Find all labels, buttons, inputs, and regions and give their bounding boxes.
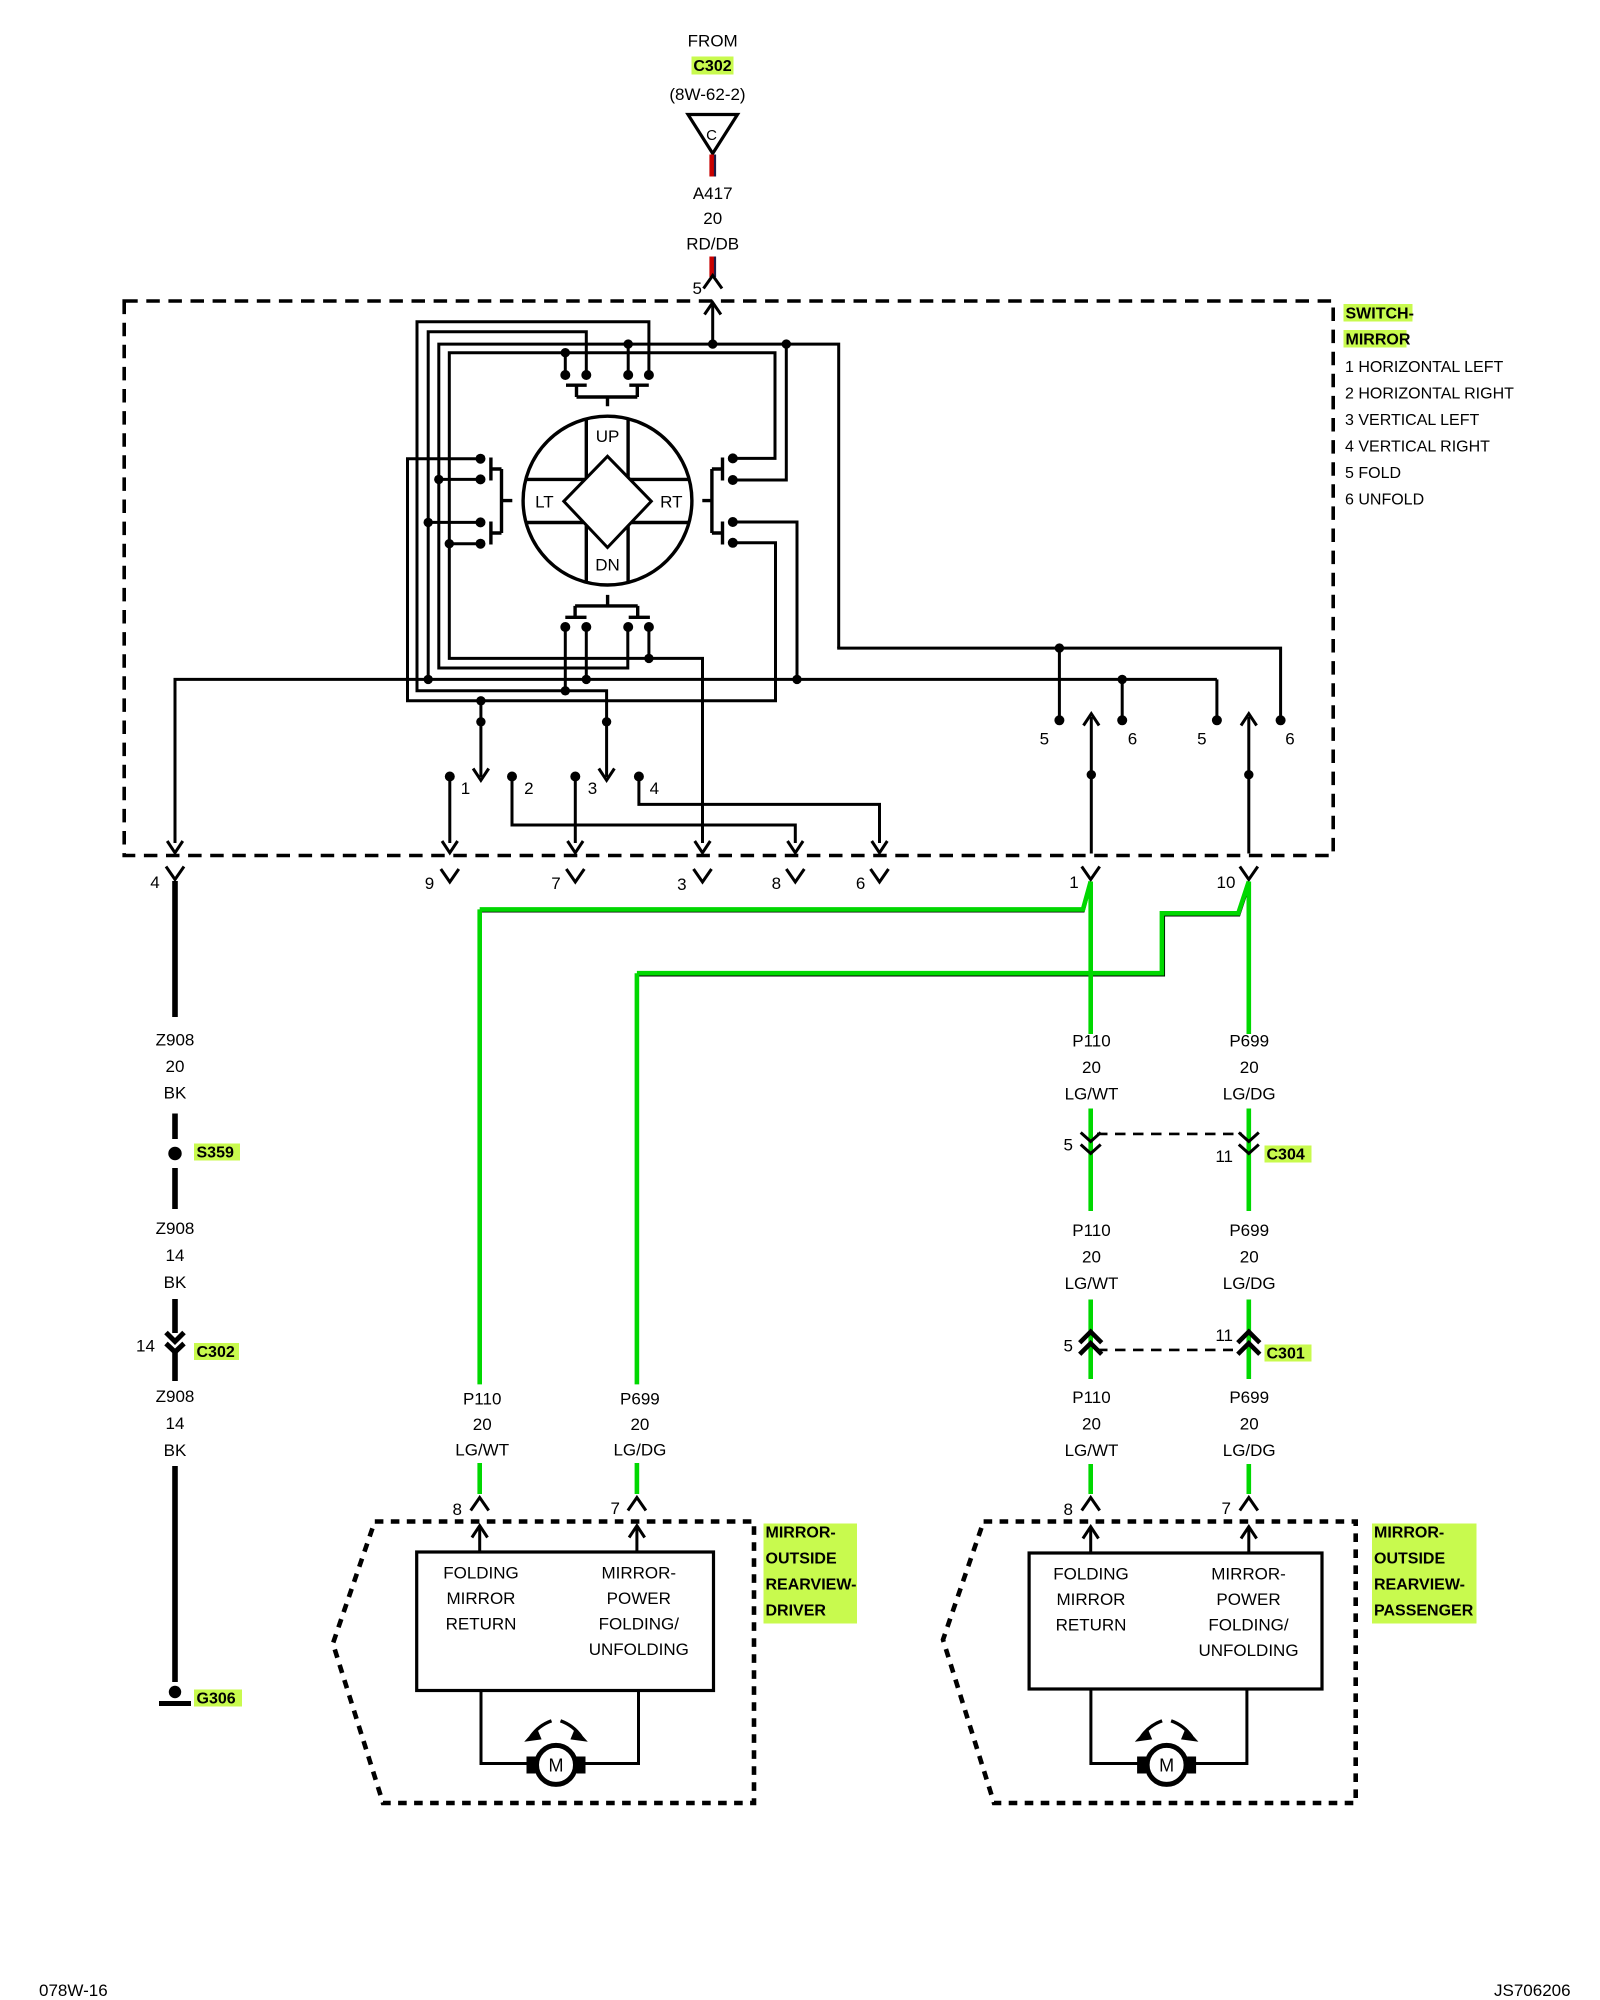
svg-text:P699: P699	[1229, 1221, 1269, 1240]
svg-text:C302: C302	[693, 58, 731, 75]
switch-mirror box (dashed)	[124, 301, 1333, 856]
svg-text:10: 10	[1217, 873, 1236, 892]
svg-text:LG/DG: LG/DG	[1223, 1441, 1276, 1460]
svg-text:6 UNFOLD: 6 UNFOLD	[1345, 492, 1424, 509]
svg-text:4 VERTICAL RIGHT: 4 VERTICAL RIGHT	[1345, 439, 1490, 456]
connector pin 5 half (top of switch box)	[704, 276, 723, 289]
connector pin 8 half (driver mirror)	[471, 1498, 489, 1511]
svg-text:BK: BK	[164, 1273, 187, 1292]
svg-text:BK: BK	[164, 1441, 187, 1460]
fold/unfold contact dots 5 6 5 6	[1054, 715, 1064, 725]
net UP2/common link : loop line B	[428, 332, 586, 680]
svg-text:1 HORIZONTAL LEFT: 1 HORIZONTAL LEFT	[1345, 359, 1503, 376]
svg-text:M: M	[549, 1756, 564, 1776]
junction dot on wiper34 shaft	[602, 717, 611, 726]
svg-text:Z908: Z908	[156, 1031, 195, 1050]
driver mirror module box	[417, 1552, 714, 1691]
wire P699 horizontal run (switch pin10 to driver mirror)	[637, 885, 1250, 976]
svg-text:P110: P110	[1072, 1032, 1110, 1051]
wire Z908 20 BK upper	[172, 881, 178, 1017]
svg-text:RETURN: RETURN	[446, 1615, 517, 1634]
connector pin 7 half (passenger mirror)	[1240, 1498, 1258, 1511]
DN2 stub on common	[585, 627, 588, 679]
svg-text:14: 14	[166, 1414, 185, 1433]
svg-text:DRIVER: DRIVER	[766, 1603, 827, 1620]
svg-text:5: 5	[1064, 1337, 1073, 1356]
svg-text:20: 20	[473, 1415, 492, 1434]
svg-text:5: 5	[1064, 1136, 1073, 1155]
svg-text:MIRROR-: MIRROR-	[1211, 1565, 1286, 1584]
connector pin 7 half	[566, 869, 584, 882]
svg-text:UNFOLDING: UNFOLDING	[589, 1640, 689, 1659]
wire P699 passenger segments	[1247, 882, 1252, 1035]
mirror-outside rearview-passenger housing (dashed)	[943, 1522, 1356, 1804]
svg-text:078W-16: 078W-16	[39, 1981, 108, 2000]
svg-text:3: 3	[677, 875, 686, 894]
svg-text:RETURN: RETURN	[1056, 1616, 1127, 1635]
svg-text:P699: P699	[1229, 1388, 1269, 1407]
svg-text:C304: C304	[1267, 1147, 1305, 1164]
svg-text:LG/WT: LG/WT	[1065, 1085, 1119, 1104]
ground G306	[169, 1686, 181, 1698]
connector pin 7 half (driver mirror)	[628, 1498, 646, 1511]
UP bank movable bars and common stub	[566, 385, 649, 406]
svg-text:REARVIEW-: REARVIEW-	[1374, 1577, 1465, 1594]
svg-text:UNFOLDING: UNFOLDING	[1198, 1641, 1298, 1660]
UP3 stub to power line	[627, 344, 630, 375]
svg-text:8: 8	[1064, 1500, 1073, 1519]
DN bank contact dots	[560, 622, 570, 632]
motor wires (passenger)	[1091, 1689, 1142, 1764]
svg-text:5: 5	[1197, 730, 1206, 749]
svg-text:OUTSIDE: OUTSIDE	[766, 1551, 837, 1568]
connector C301 pin 11 half	[1238, 1332, 1260, 1355]
connector pin 1 half	[1082, 867, 1100, 880]
svg-text:RT: RT	[660, 493, 682, 512]
fold wiper arrow pin10	[1247, 717, 1250, 854]
UP1 stub on line D	[564, 353, 567, 375]
entry arrow pin 8 (driver)	[478, 1528, 481, 1552]
svg-text:5: 5	[693, 279, 702, 298]
svg-text:UP: UP	[596, 427, 620, 446]
net pin3 : loop line D	[449, 353, 775, 843]
DN4 stub on line D bottom	[647, 627, 650, 658]
svg-text:C302: C302	[197, 1344, 235, 1361]
motor rotation arrows (driver)	[531, 1721, 552, 1737]
connector pin 8 half (passenger mirror)	[1082, 1498, 1100, 1511]
svg-text:LG/DG: LG/DG	[1223, 1085, 1276, 1104]
svg-text:LG/WT: LG/WT	[455, 1441, 509, 1460]
svg-text:FOLDING/: FOLDING/	[1208, 1616, 1289, 1635]
connector pin 9 half	[441, 869, 459, 882]
wire P699 driver lower segment	[635, 1463, 640, 1494]
svg-text:FOLDING/: FOLDING/	[599, 1615, 680, 1634]
LT bank movable bars and common stub	[491, 458, 512, 545]
knob circle	[523, 416, 692, 585]
label MIRROR-OUTSIDE REARVIEW-DRIVER (highlighted)	[764, 1524, 858, 1624]
net power (pin5) : loop line C	[439, 344, 839, 668]
connector pin 4 half	[166, 867, 184, 880]
RT3 drop to common	[733, 522, 797, 679]
net LT1/RT4/wiper12 : line E	[408, 459, 776, 701]
off-page connector C triangle	[688, 115, 738, 154]
svg-text:6: 6	[856, 874, 865, 893]
LT2 tee on power drop	[439, 478, 481, 481]
svg-text:5: 5	[1040, 730, 1049, 749]
wire A417 20 RD/DB (red, upper segment)	[709, 155, 714, 177]
motor M (passenger)	[1137, 1757, 1146, 1774]
svg-text:REARVIEW-: REARVIEW-	[766, 1577, 857, 1594]
label SWITCH-MIRROR (highlighted)	[1344, 304, 1413, 322]
svg-text:20: 20	[166, 1057, 185, 1076]
svg-text:M: M	[1159, 1756, 1174, 1776]
LT4 tee on line D drop	[449, 542, 480, 545]
wire P699 driver vertical	[635, 973, 640, 1384]
label MIRROR-OUTSIDE REARVIEW-PASSENGER (highlighted)	[1372, 1524, 1477, 1624]
svg-text:MIRROR: MIRROR	[1057, 1590, 1126, 1609]
knob diamond	[564, 456, 652, 547]
svg-text:1: 1	[461, 779, 470, 798]
svg-text:PASSENGER: PASSENGER	[1374, 1603, 1474, 1620]
connector pin 8 half	[786, 869, 804, 882]
svg-text:LG/DG: LG/DG	[1223, 1274, 1276, 1293]
svg-text:7: 7	[611, 1499, 620, 1518]
pin 1 stub	[445, 772, 455, 782]
svg-text:20: 20	[703, 209, 722, 228]
entry arrow pin 5 (inside box)	[711, 304, 714, 344]
svg-text:LT: LT	[535, 493, 554, 512]
connector pin 6 half	[871, 869, 889, 882]
wire P110 passenger segments	[1088, 882, 1093, 1035]
stub to fold contact 6 (left)	[1121, 679, 1124, 720]
svg-text:FOLDING: FOLDING	[443, 1564, 519, 1583]
svg-text:P699: P699	[620, 1390, 660, 1409]
svg-text:Z908: Z908	[156, 1387, 195, 1406]
svg-text:20: 20	[1082, 1415, 1101, 1434]
entry arrow pin 7 (driver)	[635, 1528, 638, 1552]
svg-text:G306: G306	[197, 1691, 236, 1708]
svg-text:(8W-62-2): (8W-62-2)	[669, 85, 745, 104]
svg-text:MIRROR: MIRROR	[447, 1589, 516, 1608]
svg-text:8: 8	[772, 874, 781, 893]
pin 2 stub	[507, 772, 517, 782]
stub to fold contact 5 (left)	[1058, 648, 1061, 720]
pin 3 stub	[570, 772, 580, 782]
connector pin 10 half	[1240, 867, 1258, 880]
svg-text:S359: S359	[197, 1145, 234, 1162]
svg-text:MIRROR-: MIRROR-	[766, 1525, 836, 1542]
wire P110 driver lower segment	[477, 1463, 482, 1494]
connector C301 dashed link	[1097, 1349, 1233, 1352]
wire A417 (red, lower segment)	[709, 257, 714, 278]
svg-text:BK: BK	[164, 1084, 187, 1103]
svg-text:FOLDING: FOLDING	[1053, 1565, 1129, 1584]
svg-text:4: 4	[650, 779, 659, 798]
wire P110 driver vertical	[477, 909, 482, 1384]
motor rotation arrows (passenger)	[1142, 1721, 1163, 1737]
DN bank movable bars and common stub	[565, 595, 650, 617]
svg-text:LG/WT: LG/WT	[1065, 1274, 1119, 1293]
svg-text:5 FOLD: 5 FOLD	[1345, 465, 1401, 482]
svg-text:6: 6	[1128, 730, 1137, 749]
svg-text:OUTSIDE: OUTSIDE	[1374, 1551, 1445, 1568]
passenger mirror module box	[1029, 1553, 1322, 1689]
svg-text:Z908: Z908	[156, 1219, 195, 1238]
svg-text:14: 14	[166, 1246, 185, 1265]
power branch to fold contacts 5/6	[837, 648, 1280, 720]
connector C304 pin 5 half	[1081, 1133, 1101, 1154]
border arrowhead pin4 wire	[167, 841, 183, 853]
net common pin4 : long line	[175, 679, 1217, 843]
svg-text:7: 7	[1222, 1499, 1231, 1518]
svg-text:MIRROR-: MIRROR-	[601, 1564, 676, 1583]
svg-text:RD/DB: RD/DB	[686, 235, 739, 254]
splice S359	[168, 1147, 181, 1160]
mirror-outside rearview-driver housing (dashed)	[333, 1522, 754, 1804]
svg-text:P110: P110	[1072, 1388, 1110, 1407]
svg-text:20: 20	[1082, 1058, 1101, 1077]
svg-text:MIRROR: MIRROR	[1346, 332, 1411, 349]
LT bank contact dots	[476, 454, 486, 464]
junction: DN1 stub on line A	[564, 627, 567, 691]
pin5 entry junction on power line	[708, 339, 717, 348]
svg-text:3: 3	[588, 779, 597, 798]
svg-text:11: 11	[1215, 1147, 1233, 1166]
entry arrow pin 7 (passenger)	[1247, 1529, 1250, 1553]
svg-text:20: 20	[1240, 1058, 1259, 1077]
svg-text:6: 6	[1285, 730, 1294, 749]
UP bank contact dots	[560, 370, 570, 380]
RT bank movable bars and common stub	[702, 458, 722, 545]
LT3 tee on line B drop	[428, 521, 480, 524]
connector C304 dashed link	[1097, 1133, 1242, 1136]
RT bank contact dots	[728, 453, 738, 463]
svg-text:JS706206: JS706206	[1494, 1981, 1571, 2000]
svg-text:14: 14	[136, 1337, 155, 1356]
svg-text:P699: P699	[1229, 1032, 1269, 1051]
pin 4 stub	[634, 772, 644, 782]
svg-text:2: 2	[524, 779, 533, 798]
svg-text:20: 20	[1082, 1248, 1101, 1267]
svg-text:C301: C301	[1267, 1346, 1305, 1363]
svg-text:11: 11	[1215, 1326, 1233, 1345]
svg-text:20: 20	[630, 1415, 649, 1434]
svg-text:C: C	[706, 127, 717, 144]
svg-text:9: 9	[425, 874, 434, 893]
connector label C302 (highlighted)	[692, 57, 734, 75]
svg-text:POWER: POWER	[607, 1589, 671, 1608]
svg-text:1: 1	[1069, 873, 1078, 892]
svg-text:20: 20	[1240, 1415, 1259, 1434]
wire P110 horizontal run (switch pin1 to driver mirror)	[480, 884, 1092, 912]
connector C302 (in-line, pin 14)	[166, 1333, 184, 1342]
svg-text:LG/WT: LG/WT	[1065, 1441, 1119, 1460]
svg-text:2 HORIZONTAL RIGHT: 2 HORIZONTAL RIGHT	[1345, 386, 1514, 403]
entry arrow pin 8 (passenger)	[1089, 1529, 1092, 1553]
svg-text:7: 7	[551, 874, 560, 893]
border arrowhead pin3 wire	[695, 841, 711, 853]
motor M (driver)	[527, 1757, 536, 1774]
common drop to fold contact 5 (right)	[1215, 679, 1218, 720]
svg-text:3 VERTICAL LEFT: 3 VERTICAL LEFT	[1345, 412, 1479, 429]
svg-text:FROM: FROM	[688, 32, 738, 51]
common line junction dots	[424, 675, 433, 684]
svg-text:A417: A417	[693, 184, 733, 203]
svg-text:DN: DN	[595, 556, 620, 575]
svg-text:P110: P110	[1072, 1221, 1110, 1240]
knob chord lines	[585, 419, 588, 582]
svg-text:P110: P110	[463, 1390, 501, 1409]
motor wires (driver)	[481, 1691, 531, 1764]
fold wiper arrow pin1	[1090, 717, 1093, 854]
svg-text:POWER: POWER	[1216, 1590, 1280, 1609]
RT2 riser to power line	[733, 344, 787, 480]
svg-text:20: 20	[1240, 1248, 1259, 1267]
svg-text:8: 8	[453, 1500, 462, 1519]
svg-text:MIRROR-: MIRROR-	[1374, 1525, 1444, 1542]
wiper arrow head (between pins 3 and 4)	[599, 769, 615, 781]
connector C301 pin 5 half	[1080, 1332, 1102, 1355]
connector pin 3 half	[694, 869, 712, 882]
svg-text:4: 4	[150, 873, 159, 892]
wiper arrow (between pins 1 and 2)	[479, 701, 482, 777]
svg-text:SWITCH-: SWITCH-	[1346, 306, 1414, 323]
connector C304 pin 11 half	[1239, 1133, 1259, 1154]
net UP4/DN1/wiper34 : loop line A	[417, 322, 649, 777]
svg-text:LG/DG: LG/DG	[613, 1441, 666, 1460]
